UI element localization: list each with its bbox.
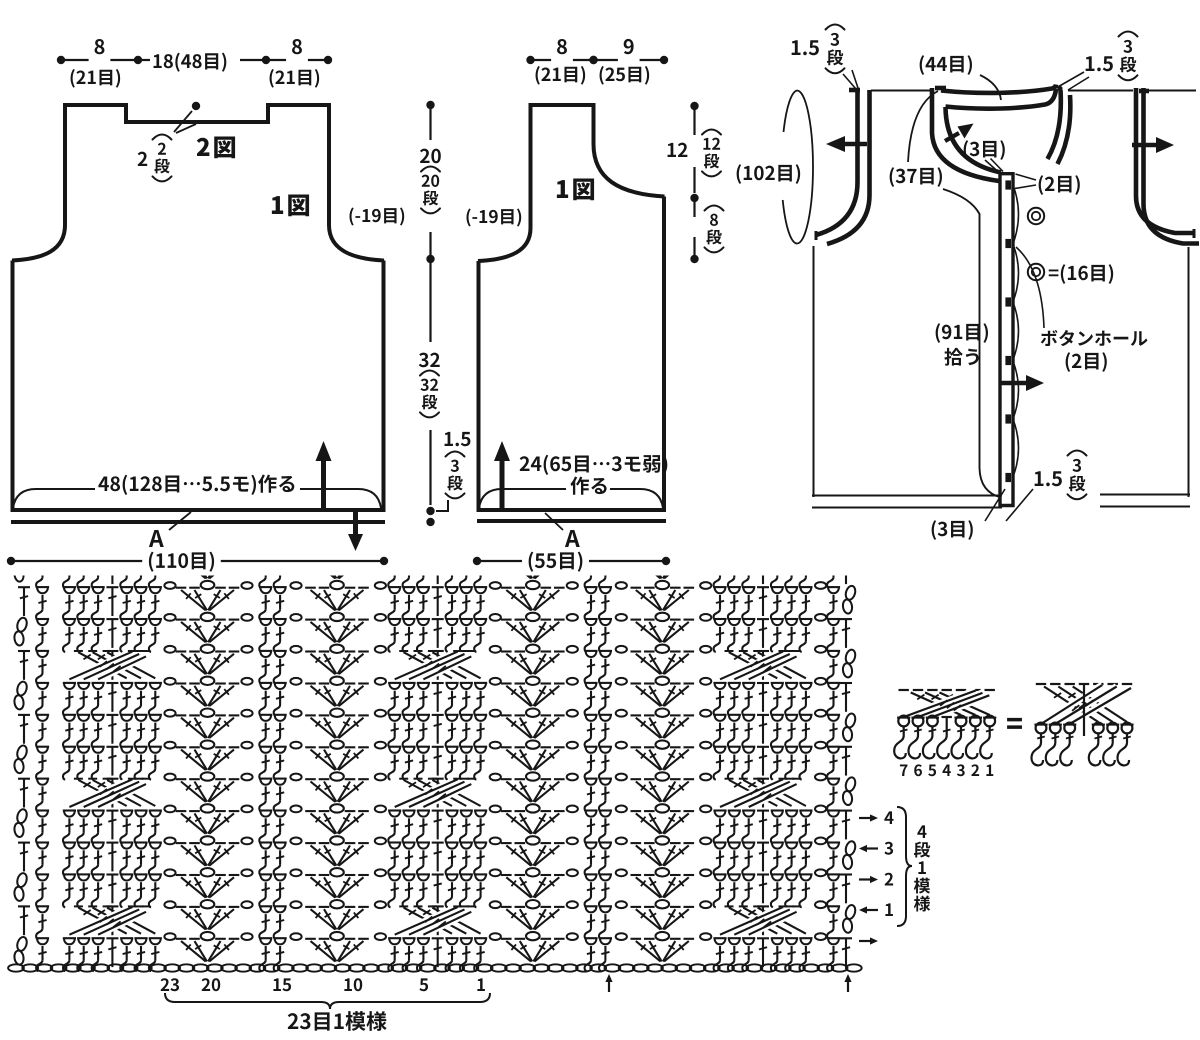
buttonhole scallop arcs <box>1014 188 1019 474</box>
dimension 18(48目) line <box>138 59 150 61</box>
label A front <box>565 530 580 547</box>
button circle 1 <box>1028 208 1044 224</box>
buttonhole mark 4 <box>1005 356 1011 365</box>
label 20 <box>420 149 441 164</box>
left neck curve inner <box>946 107 1002 173</box>
front axis line1 <box>693 106 695 135</box>
label (3段) axis stacked <box>446 452 465 499</box>
label (25目) front <box>600 66 650 85</box>
label 1.5 axis <box>445 432 471 446</box>
stitch number 10 <box>344 978 362 991</box>
dimension (55目) <box>473 552 670 572</box>
chart row 11 <box>0 900 857 939</box>
leader slash A back <box>169 512 191 530</box>
chart row 8 <box>0 804 852 843</box>
chart row 2 <box>0 613 852 652</box>
legend number 1 <box>986 765 993 776</box>
label (20段) stacked <box>421 167 440 214</box>
leader slashes 1.5 left <box>843 70 858 89</box>
label (3目) bottom <box>932 520 973 540</box>
left front hem lines <box>812 495 1002 497</box>
dimension 9 front <box>589 39 668 64</box>
neck dot marker <box>192 102 200 110</box>
label 1.5 top-left <box>792 40 819 55</box>
button circle 2 with =(16目) <box>1028 264 1044 280</box>
label 4段1模様 char 2 <box>918 861 926 874</box>
label (21目) front <box>536 66 586 85</box>
leader slash 2図 <box>174 111 192 132</box>
label (3段) top-right stacked <box>1119 32 1138 81</box>
label (2目) buttonhole <box>1066 352 1107 372</box>
label (21目) right <box>270 69 320 88</box>
brace 4段1模様 <box>897 807 912 926</box>
leader arc 37目 <box>908 91 938 162</box>
leader slashes 1.5 right <box>1056 72 1089 90</box>
chart row 12 <box>0 932 852 971</box>
chart row 10 <box>0 868 852 907</box>
axis elbow connector <box>436 500 448 511</box>
chart row 0 <box>0 549 852 588</box>
legend number 3 <box>957 764 965 776</box>
row number 4 <box>884 811 893 824</box>
row number 3 <box>884 842 893 855</box>
foundation chain row <box>8 964 862 971</box>
label ボタンホール <box>1041 330 1148 346</box>
chart row 7 <box>0 772 857 811</box>
right armhole band end tick <box>1193 229 1196 238</box>
axis dot mid <box>426 255 434 263</box>
row arrow bottom <box>859 937 878 944</box>
row number 2 <box>885 873 894 886</box>
back piece outline (1図) <box>12 105 384 510</box>
chart row 4 <box>0 677 852 716</box>
left armhole band outer <box>816 90 858 235</box>
leader slashes 3目 neck <box>985 159 1003 173</box>
stitch number 23 <box>161 978 179 991</box>
left neck curve outer <box>932 88 999 181</box>
legend right group <box>1032 684 1134 765</box>
right armhole band outer <box>1136 88 1194 233</box>
right neck curve inner <box>1058 95 1071 164</box>
chart row 9 <box>0 836 857 875</box>
band direction arrow <box>1001 375 1044 391</box>
stitch number 15 <box>273 978 291 991</box>
front axis dot3 <box>690 255 698 263</box>
left armhole band inner <box>827 90 870 244</box>
label 4段1模様 char 4 <box>914 896 930 912</box>
label 23目1模様 <box>288 1011 387 1031</box>
buttonhole mark 5 <box>1005 414 1011 423</box>
right direction arrow <box>1132 137 1174 153</box>
axis dot bottom2 <box>426 518 434 526</box>
label (32段) stacked <box>420 371 439 418</box>
label 12 front <box>668 143 688 157</box>
leader curve buttonhole <box>1016 247 1044 328</box>
row arrow 2 <box>859 876 878 883</box>
chart row 5 <box>0 709 857 748</box>
label (44目) <box>920 55 972 75</box>
leader slash A front <box>545 513 563 530</box>
up arrow at front hem <box>494 441 510 509</box>
label (37目) <box>890 167 942 187</box>
row arrow 1 <box>859 906 878 913</box>
label 4段1模様 char 1 <box>914 842 930 858</box>
label 拾う <box>944 348 978 366</box>
chart up arrow 2 <box>844 974 851 992</box>
foundation line below front <box>477 519 666 523</box>
buttonhole mark 3 <box>1005 297 1011 306</box>
label (91目) <box>936 323 988 343</box>
label 1.5 top-right <box>1086 56 1113 71</box>
neckband left tick <box>935 86 946 91</box>
label (12段) stacked <box>702 130 721 177</box>
hem curve A-line of front <box>479 489 566 508</box>
neckband bottom line <box>946 89 1057 109</box>
legend number 6 <box>914 764 922 776</box>
label (8段) stacked <box>705 206 724 253</box>
axis dot top <box>426 101 434 109</box>
label 1.5 bottom <box>1035 471 1062 486</box>
legend number 7 <box>900 765 908 776</box>
front axis dot2 <box>690 194 698 202</box>
label 2 rows count <box>138 152 148 166</box>
down arrow at back bottom <box>348 512 363 551</box>
neckband end dot <box>1057 86 1062 91</box>
vest right shoulder line2 <box>1148 90 1196 92</box>
label 4段1模様 char 3 <box>914 878 930 894</box>
left direction arrow <box>826 136 867 152</box>
legend number 4 <box>942 765 950 776</box>
right front hem lines <box>1100 494 1190 496</box>
right armhole band top tick <box>1139 89 1149 94</box>
label 2図 <box>197 136 235 158</box>
hem curve A-line of back <box>13 489 95 508</box>
legend left group <box>894 690 996 758</box>
left front center edge <box>943 189 1001 498</box>
row arrow 4 <box>859 814 878 821</box>
front button band <box>1000 174 1013 506</box>
label =(16目) <box>1049 264 1113 284</box>
leader slashes 2目 <box>1012 174 1037 189</box>
neck direction arrow <box>945 124 974 142</box>
label (3段) bottom stacked <box>1068 451 1087 500</box>
chart row 3 <box>0 645 857 684</box>
right front side edge <box>1188 247 1190 497</box>
vest right shoulder line <box>1068 90 1133 92</box>
brace 23目1模様 <box>165 993 490 1009</box>
label 32 <box>419 353 440 368</box>
legend equals <box>1007 718 1022 729</box>
label (-19目) front <box>466 208 521 226</box>
left armhole band end tick <box>815 231 818 240</box>
neckband top line <box>941 85 1056 93</box>
label 1図 back <box>272 194 309 216</box>
label (-19目) back <box>349 207 404 225</box>
leader slashes 3目 bottom <box>985 489 1033 521</box>
buttonhole mark 6 <box>1005 473 1011 482</box>
label (2段) stacked <box>153 135 172 182</box>
dimension 8 front <box>526 39 597 64</box>
legend number 5 <box>928 765 936 777</box>
front axis line2 <box>693 200 695 217</box>
axis line seg1 <box>429 105 431 140</box>
up arrow at back hem <box>316 441 332 509</box>
row arrow 3 <box>859 845 878 852</box>
dimension 8 left shoulder <box>57 39 142 64</box>
buttonhole mark 2 <box>1005 239 1011 248</box>
row number 1 <box>885 903 893 916</box>
left front side edge <box>813 246 815 497</box>
buttonhole mark 1 <box>1005 180 1011 189</box>
axis line seg3 <box>429 259 431 342</box>
armhole (102目) ellipse <box>783 91 813 244</box>
label 1図 front <box>557 178 594 200</box>
label 4段1模様 char 0 <box>917 825 926 838</box>
axis line seg2 <box>429 232 431 259</box>
label 作る front <box>570 477 606 495</box>
label 48(128目…5.5モ)作る <box>98 475 294 495</box>
chart up arrow 1 <box>605 974 612 992</box>
stitch number 1 <box>477 978 485 991</box>
label (3段) top-left stacked <box>826 25 845 74</box>
stitch number 20 <box>202 978 221 991</box>
left armhole band top tick <box>849 88 860 93</box>
label 24(65目…3モ弱) <box>520 455 668 475</box>
right neck curve outer <box>1048 90 1061 159</box>
legend number 2 <box>971 764 979 776</box>
stitch number 5 <box>419 978 428 991</box>
leader curve 44目 <box>980 75 1001 100</box>
label (2目) band top <box>1039 175 1080 195</box>
right armhole band inner <box>1144 88 1200 244</box>
vest left shoulder line <box>871 90 931 92</box>
label 18(48目) <box>154 53 227 72</box>
front piece outline (1図) <box>478 105 665 510</box>
label (21目) left <box>71 69 121 88</box>
axis line seg4 <box>429 430 431 505</box>
chart row 6 <box>0 740 852 779</box>
dimension (110目) <box>7 552 388 572</box>
front axis dot1 <box>690 102 698 110</box>
dimension 8 right shoulder <box>262 39 332 64</box>
axis dot bottom1 <box>426 507 434 515</box>
label (102目) <box>737 164 801 184</box>
label (3目) neck <box>964 140 1005 160</box>
foundation line below back <box>11 520 385 524</box>
label A back <box>149 530 164 547</box>
chart row 1 <box>0 581 857 620</box>
